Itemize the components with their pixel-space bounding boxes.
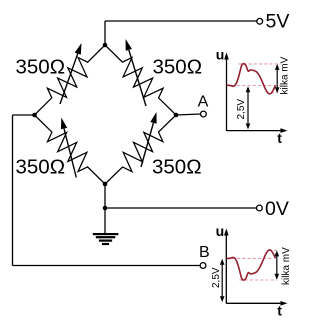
- svg-text:350Ω: 350Ω: [16, 156, 66, 179]
- svg-text:t: t: [277, 303, 282, 319]
- svg-text:u: u: [216, 47, 225, 63]
- svg-text:5V: 5V: [266, 11, 290, 33]
- svg-text:t: t: [277, 130, 282, 146]
- svg-text:B: B: [199, 244, 210, 261]
- svg-text:0V: 0V: [265, 198, 289, 220]
- svg-text:A: A: [198, 93, 209, 110]
- svg-text:350Ω: 350Ω: [16, 56, 66, 79]
- svg-text:350Ω: 350Ω: [153, 56, 203, 79]
- svg-text:2,5V: 2,5V: [211, 267, 222, 288]
- svg-text:kilka mV: kilka mV: [280, 56, 291, 94]
- svg-text:u: u: [216, 223, 225, 239]
- svg-text:350Ω: 350Ω: [152, 156, 202, 179]
- svg-text:kilka mV: kilka mV: [281, 247, 292, 285]
- svg-text:2,5V: 2,5V: [236, 99, 247, 120]
